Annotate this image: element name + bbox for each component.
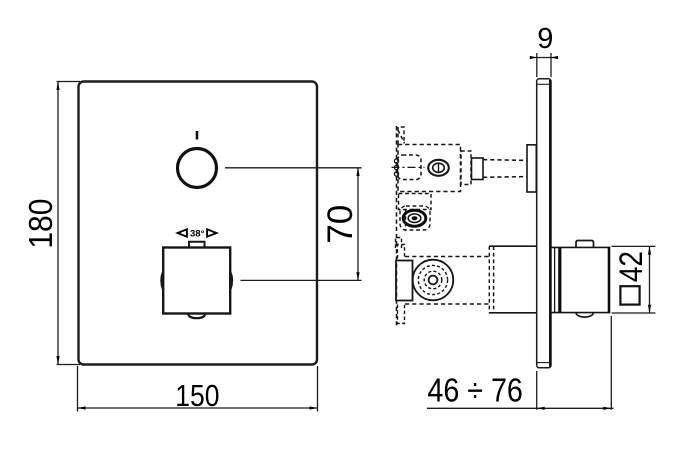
dim 150 right arrow <box>310 406 318 409</box>
dim 46-76 left arrow <box>537 407 545 410</box>
bottom valve: body bottom line <box>489 312 537 314</box>
temperature handle square <box>163 248 230 314</box>
handle base thin line <box>554 247 556 312</box>
38 deg right arrow <box>207 229 216 236</box>
bottom valve: bracket solid rect <box>396 261 413 301</box>
top valve: bracket vertical dashed <box>396 126 398 247</box>
top valve: bottom small tab <box>396 238 402 249</box>
top valve: wall sleeve <box>527 145 536 192</box>
top valve: nut inner ellipse <box>408 214 421 223</box>
bottom valve: bracket top tab <box>398 245 405 259</box>
top valve: nut housing dashed <box>400 206 430 230</box>
dim 70 line <box>357 168 359 281</box>
dim 180 top extension <box>57 81 81 83</box>
top valve: shaft top dashed <box>483 159 527 162</box>
dim 9 line <box>530 57 558 59</box>
svg-text:180: 180 <box>22 199 60 249</box>
top valve: lower bracket dashed <box>399 194 432 210</box>
top valve: shaft bottom dashed <box>483 176 527 179</box>
dim 42 bottom arrow <box>648 305 651 313</box>
svg-text:38°: 38° <box>190 229 205 240</box>
dim 42 top extension <box>612 245 656 247</box>
top valve: step2 <box>472 158 484 180</box>
bottom valve: top dashed line <box>405 256 489 258</box>
side plate right thick edge <box>549 80 552 367</box>
top valve: cartridge ridge dots <box>394 159 398 163</box>
leader from square <box>241 279 362 281</box>
bottom valve: knob inner dashed circle <box>424 271 442 289</box>
top valve: nut outer ellipse <box>403 210 426 226</box>
top valve: oval screw outer <box>428 160 449 176</box>
dim 180 line <box>57 82 59 365</box>
dim 9 right extension <box>550 53 552 77</box>
bottom valve: body left dashed edges <box>488 246 490 313</box>
top valve: bracket top tab <box>398 127 404 144</box>
dim 42 bottom extension <box>612 312 656 314</box>
top valve: lower bracket stem <box>405 210 407 232</box>
svg-text:42: 42 <box>613 251 650 282</box>
handle bottom arc <box>576 313 593 317</box>
svg-text:70: 70 <box>321 205 360 244</box>
knob index tick <box>196 131 199 140</box>
bottom valve: bottom dashed line <box>405 303 489 305</box>
svg-text:9: 9 <box>537 23 553 55</box>
bottom valve: knob outer circle <box>413 260 454 301</box>
handle bottom line <box>551 312 610 314</box>
dim 70 bottom arrow <box>356 272 359 280</box>
dim 150 left extension <box>77 366 79 412</box>
top valve: cartridge rounded rect <box>398 155 422 180</box>
knob circle <box>178 149 217 188</box>
dim 9 left arrow <box>530 56 537 59</box>
handle top tab <box>576 241 594 248</box>
bottom valve: bracket bottom tab <box>398 305 405 324</box>
dim 180 top arrow <box>56 82 59 91</box>
dim 180 bottom arrow <box>56 356 59 365</box>
side plate inner top line <box>537 83 551 85</box>
square top tab <box>189 242 205 248</box>
bottom valve: body top line <box>489 245 537 247</box>
plate front view <box>79 82 318 365</box>
dim 42 line <box>649 246 651 313</box>
bottom valve: bracket vertical dashed <box>396 242 398 326</box>
dim 180 bottom extension <box>57 364 81 366</box>
top valve: step1 dashed <box>461 151 471 185</box>
top valve: centerline <box>392 166 425 168</box>
square right bulge <box>230 272 232 290</box>
dim 150 line <box>78 407 318 409</box>
dim 46-76 right arrow <box>603 407 611 410</box>
dim 46-76 line <box>427 407 614 409</box>
dim 150 left arrow <box>78 406 86 409</box>
38 deg left arrow <box>178 229 187 236</box>
dim 9 right arrow <box>551 56 558 59</box>
square left bulge <box>161 272 163 290</box>
svg-text:150: 150 <box>175 379 219 413</box>
dim 150 right extension <box>317 366 319 412</box>
handle base flange thick line <box>558 247 561 312</box>
square bottom arc <box>188 314 205 319</box>
dim 46-76 right extension <box>610 316 612 410</box>
handle top line <box>551 246 610 248</box>
top valve: oval screw inner <box>433 163 445 172</box>
side view plate <box>537 79 551 368</box>
dim 70 top arrow <box>356 168 359 176</box>
dim 9 left extension <box>536 53 538 77</box>
svg-text:46 ÷ 76: 46 ÷ 76 <box>427 372 522 409</box>
dim 46-76 left extension <box>536 371 538 410</box>
side plate inner bottom line <box>537 362 551 364</box>
bottom valve: knob knurl circle <box>418 265 447 294</box>
leader from knob circle <box>225 167 362 169</box>
dim 42 top arrow <box>648 246 651 254</box>
top valve: main body dashed <box>398 145 461 192</box>
top valve: nut center <box>412 216 418 220</box>
bottom valve: knob center circle <box>429 276 438 285</box>
handle right thick edge <box>608 247 611 313</box>
